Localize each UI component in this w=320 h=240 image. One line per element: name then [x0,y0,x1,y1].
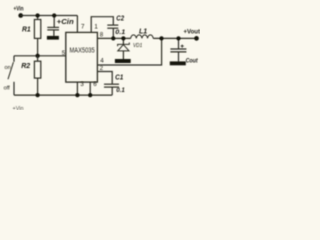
svg-text:+Vout: +Vout [184,29,201,36]
svg-text:L1: L1 [139,26,147,35]
capacitor Cin [53,16,55,28]
wire pin6 stub [89,82,91,95]
Cout plus sign [181,45,184,48]
diode VD1 schottky [122,38,124,44]
ground Cout [170,61,186,65]
capacitor C2 [107,24,118,26]
svg-text:Cout: Cout [186,58,199,65]
switch on/off [13,56,15,62]
wire pin1 to C2 [91,17,113,33]
wire pin5 [14,55,66,57]
resistor R2 [37,56,39,61]
svg-text:3: 3 [80,81,84,88]
node C2/LX junction [111,36,115,40]
wire LX output [97,37,196,39]
node Cin junction [52,13,56,17]
svg-text:C2: C2 [116,15,124,22]
svg-text:0.1: 0.1 [116,87,125,94]
capacitor C1 [104,83,119,85]
node Cout junction [176,36,180,40]
svg-text:on: on [5,65,11,71]
op-amp U1 MAX5035 body [66,32,98,82]
svg-text:+Vin: +Vin [14,5,24,12]
wire pin3 stub [76,82,78,95]
node +Vout terminal [194,36,199,41]
node R2 bottom junction [35,93,39,97]
svg-text:R1: R1 [22,25,31,34]
capacitor Cout [178,38,180,49]
svg-text:off: off [4,85,11,91]
svg-text:+Vin: +Vin [13,106,24,110]
wire pin7 stub [76,16,78,33]
svg-text:7: 7 [81,24,85,31]
svg-text:4: 4 [100,57,104,64]
svg-text:C1: C1 [115,73,123,82]
node R1/R2/pin5 junction [35,54,39,58]
ground Cin [47,36,59,40]
node VD1/LX junction [121,36,125,40]
svg-text:+Cin: +Cin [57,17,75,26]
svg-text:VD1: VD1 [133,43,142,49]
node pin6 junction [88,93,92,97]
svg-text:2: 2 [100,65,104,72]
wire +Vin rail [21,15,78,17]
ground VD1 [115,59,131,63]
wire bottom rail [14,94,112,96]
svg-text:R2: R2 [21,61,31,70]
resistor R1 [37,16,39,20]
svg-text:8: 8 [100,32,104,39]
svg-text:5: 5 [62,50,66,57]
svg-text:0.1: 0.1 [115,29,125,36]
svg-text:1: 1 [94,24,98,31]
node R1 top junction [35,13,39,17]
wire pin2 to C1 [97,72,112,85]
node +Vin terminal [18,13,23,18]
inductor L1 [131,35,153,38]
node L1/FB junction [159,36,163,40]
node pin3 junction [75,93,79,97]
svg-text:MAX5035: MAX5035 [70,47,95,54]
svg-text:6: 6 [93,81,97,88]
wire pin4 feedback [97,38,161,65]
